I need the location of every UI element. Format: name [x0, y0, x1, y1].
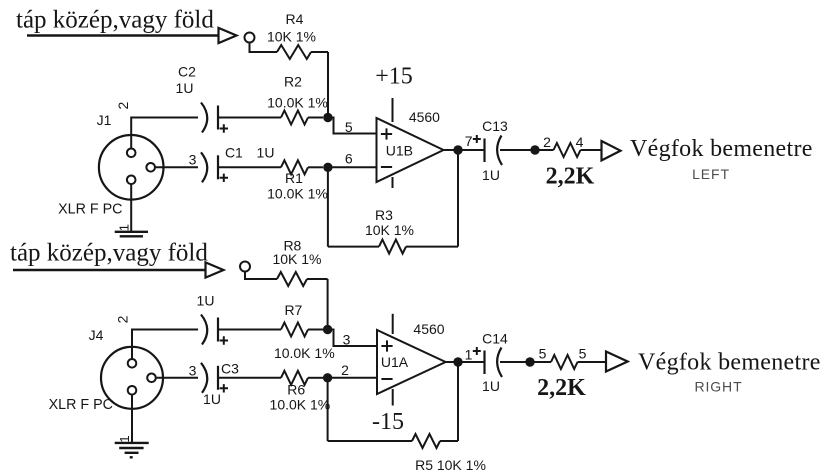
wire U1B output to node C1out [444, 149, 459, 151]
svg-text:R6: R6 [287, 382, 305, 398]
wire J1 pin2 to C2 [131, 118, 198, 149]
terminal circle (channel 2 ground-ref input) [240, 262, 250, 272]
svg-text:R1: R1 [285, 170, 303, 186]
capacitor C4 (unlabeled) [201, 315, 207, 345]
op-amp U1A [377, 330, 446, 394]
svg-text:6: 6 [345, 151, 353, 167]
wire output node to C13 [458, 149, 485, 151]
wire J1 pin1 to ground [130, 184, 132, 232]
V- power stub of U1A [392, 389, 394, 406]
svg-text:C3: C3 [221, 361, 239, 377]
output arrow (channel 1) [602, 141, 621, 160]
connector J4 (XLR female) [101, 347, 163, 409]
svg-text:táp közép,vagy föld: táp közép,vagy föld [10, 240, 208, 267]
node output (channel 1) [453, 145, 462, 154]
svg-text:2: 2 [115, 101, 131, 109]
svg-text:1: 1 [465, 347, 473, 363]
wire output node down to R5 [457, 362, 459, 441]
svg-text:4560: 4560 [409, 109, 440, 125]
svg-text:3: 3 [189, 152, 197, 168]
svg-text:7: 7 [465, 133, 473, 149]
V+ power stub of U1B [392, 98, 394, 122]
wire output node down to R3 [457, 150, 459, 247]
svg-text:Végfok bemenetre: Végfok bemenetre [638, 350, 821, 376]
polarity + of C13 [473, 135, 481, 143]
svg-text:U1A: U1A [381, 354, 409, 370]
wire J4 pin3 to C3 [156, 377, 198, 379]
resistor R8 [277, 272, 307, 286]
node output (channel 2) [453, 357, 462, 366]
svg-text:4: 4 [576, 134, 584, 150]
svg-text:J1: J1 [97, 112, 112, 128]
svg-text:C14: C14 [482, 331, 508, 347]
wire node A2 to op-amp pin 3 [328, 330, 377, 347]
svg-text:LEFT: LEFT [692, 166, 730, 182]
svg-text:1U: 1U [482, 167, 500, 183]
svg-text:10K 1%: 10K 1% [365, 222, 414, 238]
node after C13 [530, 145, 539, 154]
wire node B2 down to R5 [327, 378, 329, 441]
wire terminal to R8 [245, 272, 277, 280]
wire C13 to node D1 [500, 149, 535, 151]
resistor R4 [277, 45, 311, 59]
V- power stub of U1B [392, 177, 394, 188]
resistor 2,2K (channel 1) [535, 149, 554, 151]
terminal circle (channel 1 ground-ref input) [245, 33, 255, 43]
svg-text:táp közép,vagy föld: táp közép,vagy föld [16, 7, 214, 34]
node after C14 [525, 357, 534, 366]
arrow from note to input terminal (channel 1) [27, 34, 219, 36]
svg-text:10K 1%: 10K 1% [267, 29, 316, 45]
svg-text:2: 2 [114, 315, 130, 323]
svg-text:R3: R3 [375, 207, 393, 223]
resistor R2 [281, 111, 308, 125]
svg-text:10.0K 1%: 10.0K 1% [274, 345, 335, 361]
svg-text:10.0K 1%: 10.0K 1% [267, 95, 328, 111]
svg-text:R5 10K 1%: R5 10K 1% [415, 457, 486, 473]
svg-text:XLR F PC: XLR F PC [58, 202, 122, 218]
wire J4 pin1 to ground [131, 395, 133, 443]
capacitor C2 [201, 103, 207, 133]
svg-text:4560: 4560 [413, 321, 444, 337]
wire node A1 to op-amp pin 5 [328, 118, 377, 134]
wire J1 pin3 to C1 [155, 166, 198, 168]
wire node B1 down to R3 [327, 167, 329, 246]
wire C2 to R2 [218, 117, 281, 119]
capacitor C13 [483, 139, 485, 163]
svg-text:3: 3 [343, 332, 351, 348]
resistor R7 [281, 323, 308, 337]
svg-text:10.0K 1%: 10.0K 1% [270, 397, 331, 413]
svg-text:1U: 1U [257, 145, 275, 161]
output arrow (channel 2) [606, 352, 628, 372]
svg-text:5: 5 [345, 119, 353, 135]
svg-text:2,2K: 2,2K [546, 164, 595, 190]
node A2 (R7/R8 junction) [323, 325, 332, 334]
node B1 (R1 junction) [323, 163, 332, 172]
node A1 (R2/R4 junction) [323, 113, 332, 122]
node B2 (R6 junction) [323, 373, 332, 382]
svg-text:5: 5 [579, 346, 587, 362]
svg-text:R2: R2 [284, 74, 302, 90]
svg-text:1U: 1U [176, 80, 194, 96]
wire J4 pin2 to C4 [132, 330, 198, 360]
svg-text:1U: 1U [482, 378, 500, 394]
resistor R6 [281, 371, 308, 385]
svg-text:C1: C1 [225, 145, 243, 161]
resistor R5 (feedback) [328, 440, 412, 442]
resistor R3 (feedback) [328, 246, 379, 248]
svg-text:RIGHT: RIGHT [694, 379, 742, 395]
resistor R1 [281, 160, 308, 174]
svg-text:1: 1 [117, 435, 132, 442]
svg-text:10.0K 1%: 10.0K 1% [267, 186, 328, 202]
wire C14 to node D2 [500, 361, 530, 363]
V+ power stub of U1A [392, 314, 394, 334]
connector J1 (XLR female) [99, 135, 164, 200]
ground (channel 1) [115, 231, 148, 233]
wire U1A output to output node [446, 361, 458, 363]
ground (channel 2) [115, 442, 149, 444]
resistor 2,2K (channel 2) [530, 361, 551, 363]
wire C1 to R1 [218, 166, 281, 168]
svg-text:1U: 1U [203, 391, 221, 407]
capacitor C3 [201, 363, 207, 393]
svg-text:1U: 1U [197, 293, 215, 309]
svg-text:XLR F PC: XLR F PC [49, 397, 113, 413]
svg-text:2,2K: 2,2K [537, 375, 586, 401]
wire node B2 to op-amp pin 2 [328, 377, 377, 379]
svg-text:R4: R4 [286, 11, 304, 27]
svg-text:C2: C2 [178, 64, 196, 80]
wire output node to C14 [458, 361, 485, 363]
svg-text:2: 2 [341, 362, 349, 378]
svg-text:J4: J4 [89, 327, 104, 343]
wire R4 to node A1 [327, 52, 329, 118]
svg-text:U1B: U1B [386, 142, 413, 158]
svg-text:R7: R7 [284, 302, 302, 318]
svg-text:-15: -15 [372, 409, 404, 435]
svg-text:1: 1 [117, 224, 132, 231]
svg-text:3: 3 [189, 363, 197, 379]
polarity + of C14 [473, 347, 481, 355]
svg-text:10K 1%: 10K 1% [272, 251, 321, 267]
capacitor C14 [483, 351, 485, 375]
svg-text:C13: C13 [482, 118, 508, 134]
arrow from note to input terminal (channel 2) [13, 269, 206, 271]
svg-text:Végfok bemenetre: Végfok bemenetre [630, 136, 813, 162]
capacitor C1 [201, 152, 207, 182]
wire C3 to R6 [218, 377, 281, 379]
wire node B1 to op-amp pin 6 [328, 166, 377, 168]
op-amp U1B [377, 118, 444, 182]
svg-text:2: 2 [543, 134, 551, 150]
wire R8 to node A2 [327, 279, 329, 330]
svg-text:+15: +15 [375, 64, 413, 90]
wire C4 to R7 [218, 329, 281, 331]
wire terminal to R4 [250, 43, 278, 53]
svg-text:5: 5 [539, 346, 547, 362]
